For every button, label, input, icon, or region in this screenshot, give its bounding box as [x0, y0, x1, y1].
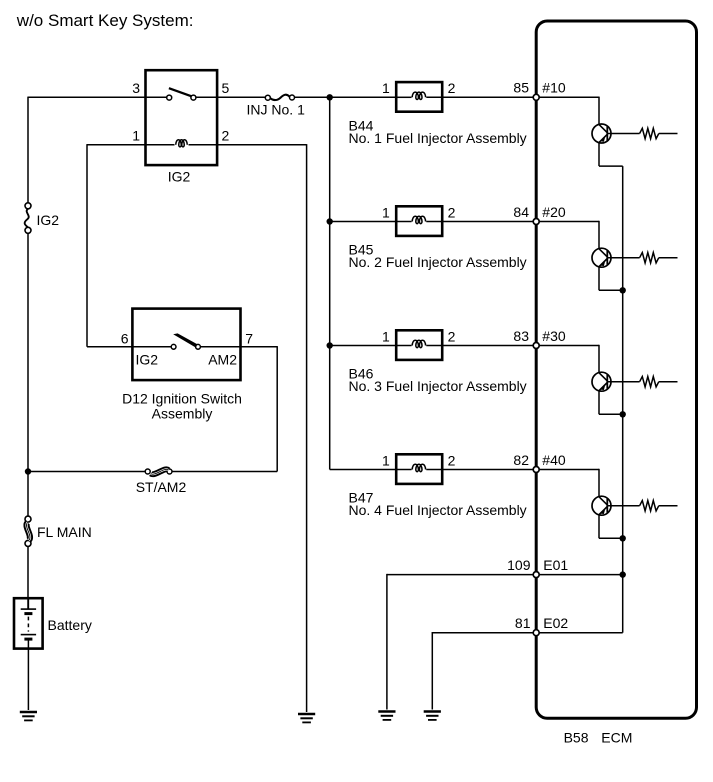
node bus junction row1: [327, 94, 333, 100]
svg-text:No. 1 Fuel Injector Assembly: No. 1 Fuel Injector Assembly: [349, 130, 527, 146]
svg-text:1: 1: [382, 204, 390, 220]
node emitter rail junction row3: [620, 411, 626, 417]
wire left rail top horizontal to relay pin 3: [28, 96, 167, 98]
relay IG2 switch blade: [169, 88, 191, 96]
wire bus to injector B44: [330, 96, 397, 98]
wire transistor Q3 emitter down: [598, 391, 600, 414]
wire transistor Q4 emitter down: [598, 515, 600, 538]
svg-text:No. 2 Fuel Injector Assembly: No. 2 Fuel Injector Assembly: [349, 254, 527, 270]
wire resistor R2 lead: [659, 257, 678, 259]
wire bottom branch right segment: [172, 471, 277, 473]
svg-text:FL MAIN: FL MAIN: [37, 524, 92, 540]
relay IG2 switch contact left: [167, 95, 172, 100]
svg-text:INJ No. 1: INJ No. 1: [247, 102, 306, 118]
svg-text:E02: E02: [543, 615, 568, 631]
ground E01: [378, 710, 395, 713]
battery internal bottom lead: [27, 639, 29, 649]
wire injector B45 to ECM pin: [442, 221, 536, 223]
ground battery: [20, 711, 37, 714]
node bus junction row3: [327, 342, 333, 348]
wire transistor Q2 emitter down: [598, 267, 600, 290]
svg-text:2: 2: [448, 452, 456, 468]
node bus junction row2: [327, 218, 333, 224]
wire relay pin2 down to ground: [306, 144, 308, 712]
svg-text:6: 6: [121, 330, 129, 346]
wire E02 internal: [536, 632, 623, 634]
resistor R2: [640, 253, 659, 263]
svg-text:E01: E01: [543, 557, 568, 573]
svg-text:IG2: IG2: [136, 351, 159, 367]
transistor Q3: [592, 372, 611, 391]
transistor Q1: [592, 124, 611, 143]
svg-text:D12 Ignition Switch: D12 Ignition Switch: [122, 391, 242, 407]
ignition switch D12 box: [132, 309, 240, 381]
svg-text:1: 1: [382, 80, 390, 96]
injector B46 coil: [396, 345, 411, 347]
ECM box B58: [536, 21, 696, 718]
wire relay pin5 inside: [196, 96, 217, 98]
wire left rail vertical middle segment: [27, 233, 29, 516]
wire injector B44 to ECM pin: [442, 96, 536, 98]
svg-text:AM2: AM2: [208, 351, 237, 367]
transistor Q2: [592, 248, 611, 267]
node emitter rail junction row2: [620, 287, 626, 293]
resistor R4: [640, 501, 659, 511]
wire transistor Q4 emitter to rail: [599, 537, 623, 539]
injector B44 box: [396, 82, 442, 112]
wire bus to injector B45: [330, 221, 397, 223]
resistor R1: [640, 128, 659, 138]
injector B45 box: [396, 206, 442, 236]
injector B47 box: [396, 454, 442, 484]
wire injector B46 to ECM pin: [442, 345, 536, 347]
svg-text:B58: B58: [564, 730, 589, 746]
svg-text:ECM: ECM: [601, 730, 632, 746]
wire E02 external to ground: [432, 632, 536, 634]
battery plate long top: [21, 608, 36, 610]
wire relay pin5 to fuse INJ No.1: [217, 96, 265, 98]
fusible link ST/AM2: [145, 469, 150, 474]
wire ECM pin #30 to transistor collector: [536, 345, 599, 347]
injector B45 coil: [396, 221, 411, 223]
node junction left rail / ST-AM2 branch: [25, 468, 31, 474]
svg-text:w/o Smart Key System:: w/o Smart Key System:: [16, 11, 194, 30]
resistor R3: [640, 377, 659, 387]
wire pin7 branch down: [276, 346, 278, 471]
svg-text:81: 81: [515, 615, 531, 631]
wire into D12 pin 6: [87, 346, 171, 348]
svg-text:7: 7: [245, 330, 253, 346]
wire ECM pin #20 to transistor collector: [536, 221, 599, 223]
wire relay pin2 to right: [217, 144, 307, 146]
wire ECM pin #10 to transistor collector: [536, 96, 599, 98]
pin circle ECM 84: [533, 219, 539, 225]
wire transistor Q4 base lead: [607, 505, 639, 507]
svg-text:2: 2: [448, 80, 456, 96]
pin circle ECM 109: [533, 572, 539, 578]
wire transistor Q1 emitter down: [598, 143, 600, 166]
wire resistor R4 lead: [659, 505, 678, 507]
pin circle ECM 82: [533, 467, 539, 473]
wire D12 internal pin7 side: [200, 346, 240, 348]
svg-text:1: 1: [132, 128, 140, 144]
svg-text:82: 82: [513, 452, 529, 468]
wire E01 internal: [536, 574, 623, 576]
svg-text:2: 2: [448, 328, 456, 344]
fusible link FL MAIN: [25, 516, 31, 522]
svg-text:IG2: IG2: [168, 169, 191, 185]
svg-text:#10: #10: [542, 80, 566, 96]
svg-text:Assembly: Assembly: [152, 406, 213, 422]
svg-text:109: 109: [507, 557, 531, 573]
D12 switch contact right: [196, 344, 201, 349]
wire bus vertical: [329, 97, 331, 469]
wire E01 external to ground: [387, 574, 536, 576]
svg-text:#20: #20: [542, 204, 566, 220]
node emitter rail junction row4: [620, 535, 626, 541]
wire bottom branch left segment: [28, 471, 145, 473]
wire battery to ground: [27, 649, 29, 710]
wire D12 pin7 to right: [241, 346, 278, 348]
ground for relay pin2 branch: [298, 713, 315, 716]
battery dashed link: [27, 617, 29, 632]
battery plate long bottom: [21, 634, 36, 636]
injector B44 coil: [396, 96, 411, 98]
battery box: [14, 598, 43, 648]
svg-text:2: 2: [222, 128, 230, 144]
wire down rail x87: [86, 144, 88, 347]
wire left rail into battery: [27, 546, 29, 609]
svg-text:No. 3 Fuel Injector Assembly: No. 3 Fuel Injector Assembly: [349, 378, 527, 394]
svg-text:2: 2: [448, 204, 456, 220]
relay coil: [146, 144, 175, 146]
wire injector B47 to ECM pin: [442, 469, 536, 471]
svg-text:84: 84: [513, 204, 529, 220]
injector B46 box: [396, 330, 442, 360]
svg-text:No. 4 Fuel Injector Assembly: No. 4 Fuel Injector Assembly: [349, 502, 527, 518]
battery plate short top: [24, 612, 32, 615]
battery internal top lead: [27, 598, 29, 609]
wire transistor Q2 base lead: [607, 257, 639, 259]
wire emitter rail vertical: [622, 166, 624, 574]
svg-text:ST/AM2: ST/AM2: [136, 479, 187, 495]
svg-text:#30: #30: [542, 328, 566, 344]
pin circle ECM 85: [533, 94, 539, 100]
wire left rail vertical upper segment: [27, 97, 29, 203]
wire ECM pin #40 to transistor collector: [536, 469, 599, 471]
wire bus to injector B46: [330, 345, 397, 347]
svg-text:3: 3: [132, 80, 140, 96]
svg-text:83: 83: [513, 328, 529, 344]
svg-text:IG2: IG2: [37, 212, 60, 228]
fuse INJ No. 1: [265, 95, 270, 100]
fuse IG2: [25, 203, 31, 209]
wire fuse to bus junction: [295, 96, 330, 98]
wire transistor Q3 base lead: [607, 381, 639, 383]
svg-text:#40: #40: [542, 452, 566, 468]
relay IG2 switch contact right: [191, 95, 196, 100]
D12 switch blade: [173, 333, 197, 347]
wire transistor Q1 base lead: [607, 133, 639, 135]
wire bus to injector B47: [330, 469, 397, 471]
pin circle ECM 81: [533, 630, 539, 636]
wire relay pin1 to down rail: [87, 144, 146, 146]
node emitter rail at E01: [620, 571, 626, 577]
pin circle ECM 83: [533, 343, 539, 349]
svg-text:1: 1: [382, 452, 390, 468]
svg-text:85: 85: [513, 80, 529, 96]
svg-text:5: 5: [222, 80, 230, 96]
relay IG2 box: [146, 70, 218, 165]
wire resistor R3 lead: [659, 381, 678, 383]
D12 switch contact left: [171, 344, 176, 349]
transistor Q4: [592, 496, 611, 515]
wire transistor Q2 emitter to rail: [599, 289, 623, 291]
wire transistor Q1 emitter to rail: [599, 165, 623, 167]
wire transistor Q3 emitter to rail: [599, 413, 623, 415]
battery plate short bottom: [24, 638, 32, 641]
svg-text:Battery: Battery: [48, 617, 92, 633]
ground E02: [424, 710, 441, 713]
wire resistor R1 lead: [659, 133, 678, 135]
svg-text:1: 1: [382, 328, 390, 344]
injector B47 coil: [396, 469, 411, 471]
